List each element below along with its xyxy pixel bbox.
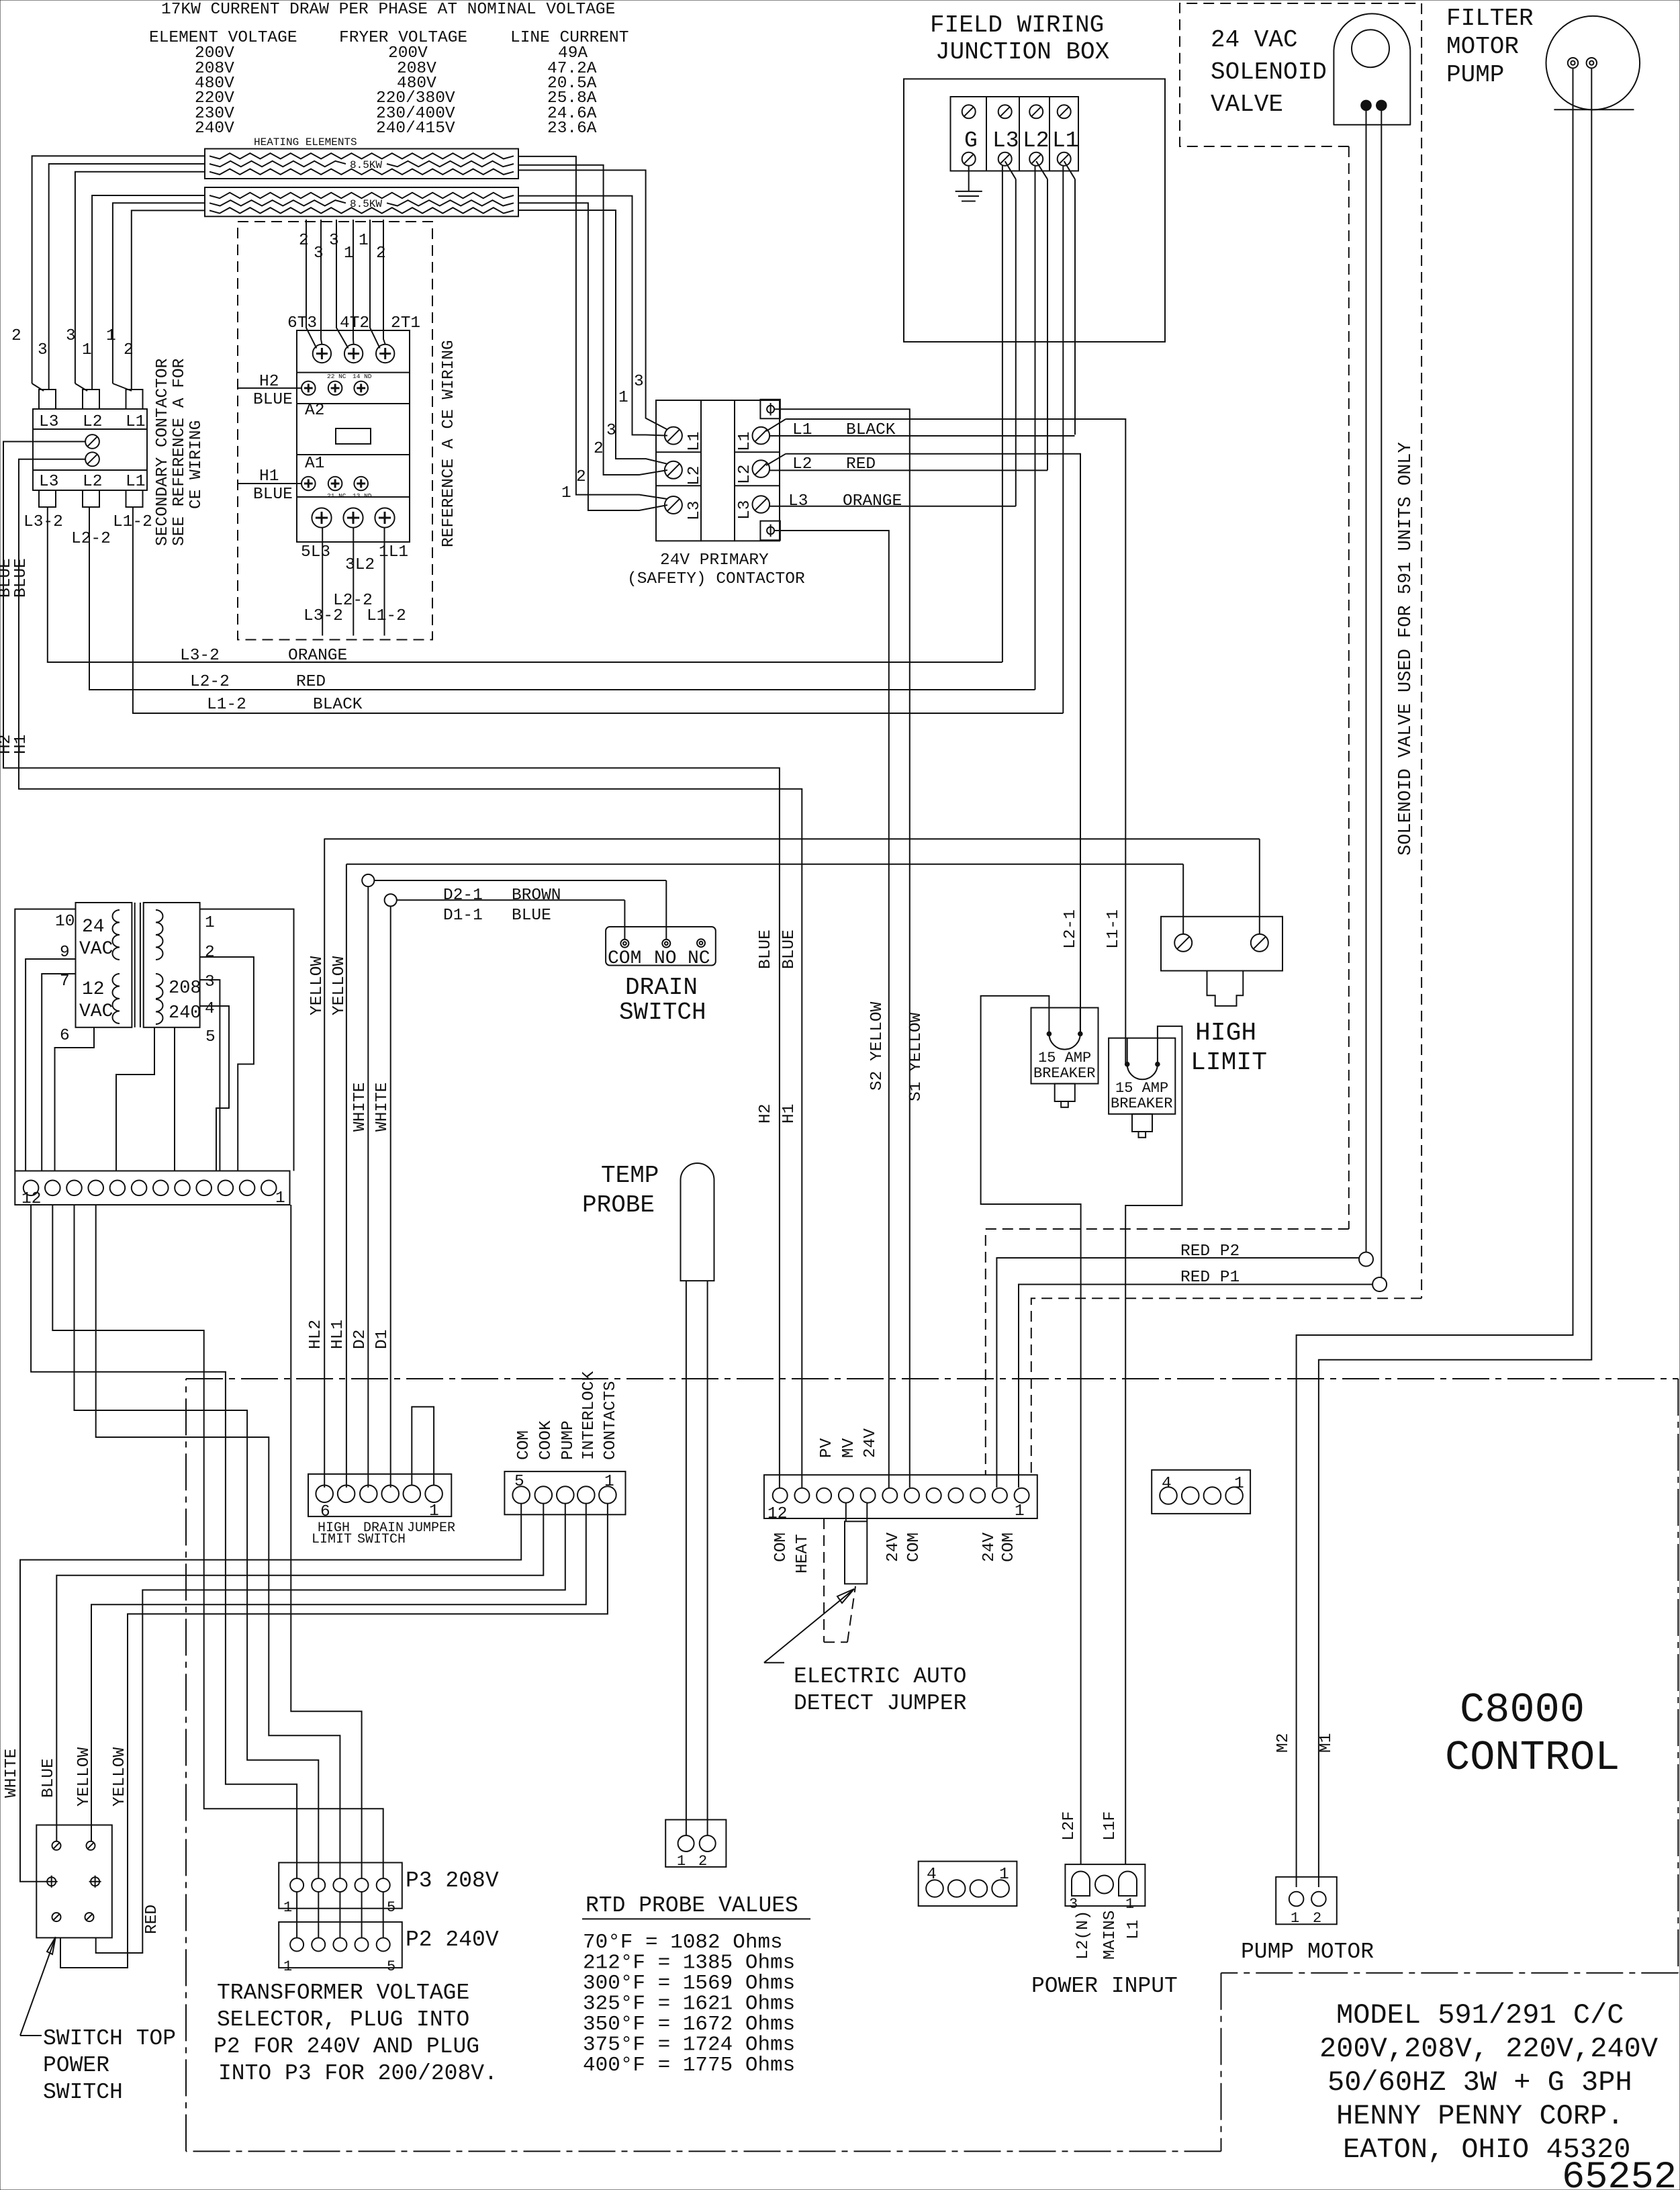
transformer secondary coil top xyxy=(156,910,163,923)
svg-text:1: 1 xyxy=(618,389,628,407)
svg-text:L2: L2 xyxy=(1023,128,1049,153)
svg-text:3: 3 xyxy=(205,973,215,991)
svg-text:BLUE: BLUE xyxy=(253,391,293,409)
arrow electric auto detect xyxy=(764,1589,854,1663)
5-pin connector box xyxy=(504,1471,625,1514)
breaker 2 loop wire to L1F xyxy=(1125,1026,1182,1864)
svg-text:400°F = 1775 Ohms: 400°F = 1775 Ohms xyxy=(583,2054,795,2077)
junction box top screws xyxy=(962,105,976,118)
temp probe capsule xyxy=(681,1163,714,1281)
arrow to switch xyxy=(20,1937,56,2036)
svg-text:YELLOW: YELLOW xyxy=(75,1747,93,1807)
transformer winding 12VAC coil xyxy=(113,974,120,987)
svg-text:240V: 240V xyxy=(195,120,234,138)
svg-text:VALVE: VALVE xyxy=(1211,91,1283,118)
wire D2 with junction circle and D2-1 BROWN xyxy=(367,886,369,1488)
svg-text:3: 3 xyxy=(329,232,339,250)
svg-text:2T1: 2T1 xyxy=(391,314,420,332)
svg-text:TRANSFORMER VOLTAGE: TRANSFORMER VOLTAGE xyxy=(217,1980,469,2005)
main contactor top screws 6T3 4T2 2T1 xyxy=(313,345,331,363)
svg-text:22 NC: 22 NC xyxy=(327,373,346,380)
svg-text:3: 3 xyxy=(38,341,48,359)
svg-text:COM: COM xyxy=(772,1533,790,1562)
breaker 1 terminals and arc xyxy=(1048,1008,1049,1034)
svg-text:3: 3 xyxy=(314,244,324,263)
svg-text:MODEL 591/291 C/C: MODEL 591/291 C/C xyxy=(1336,1999,1624,2032)
svg-text:L2: L2 xyxy=(686,466,704,486)
svg-text:SOLENOID: SOLENOID xyxy=(1211,58,1327,86)
4-pin connector near power input xyxy=(919,1862,1017,1907)
svg-text:D1: D1 xyxy=(373,1330,391,1349)
svg-text:YELLOW: YELLOW xyxy=(111,1747,129,1807)
main contactor U1 box xyxy=(297,330,410,542)
breaker 1 plug xyxy=(1055,1084,1075,1101)
svg-text:12: 12 xyxy=(767,1505,787,1523)
wire HL2 from connector pin6 to high limit xyxy=(324,839,325,1488)
svg-text:JUMPER: JUMPER xyxy=(407,1520,455,1536)
wire L3 feed straight xyxy=(1002,166,1003,662)
24 VAC solenoid valve dashed enclosure xyxy=(1180,3,1421,146)
svg-text:DETECT JUMPER: DETECT JUMPER xyxy=(794,1691,966,1716)
svg-text:COM: COM xyxy=(608,948,641,969)
svg-text:3: 3 xyxy=(1069,1896,1078,1913)
svg-text:ORANGE: ORANGE xyxy=(843,492,902,510)
15 amp breaker 1 box xyxy=(1031,1008,1099,1084)
svg-text:1: 1 xyxy=(999,1866,1009,1884)
svg-text:BREAKER: BREAKER xyxy=(1111,1095,1172,1112)
svg-text:H1: H1 xyxy=(12,735,30,754)
svg-text:1: 1 xyxy=(1291,1910,1299,1927)
dashed boundary around RED P wires inner xyxy=(1031,1298,1421,1475)
svg-text:2: 2 xyxy=(205,944,215,962)
temp probe 2-pin connector xyxy=(665,1820,726,1867)
wire interlock pin2 to switch YELLOW xyxy=(91,1504,586,1841)
svg-text:L1F: L1F xyxy=(1101,1811,1119,1841)
svg-text:200V,208V, 220V,240V: 200V,208V, 220V,240V xyxy=(1319,2033,1658,2065)
wire interlock pin5 to switch WHITE xyxy=(20,1504,521,1882)
wire selector feed 1 xyxy=(31,1205,297,1878)
svg-text:1: 1 xyxy=(344,244,354,263)
svg-text:G: G xyxy=(964,128,978,153)
drain switch wires up xyxy=(624,900,625,940)
svg-text:L1: L1 xyxy=(126,413,145,431)
svg-text:SWITCH: SWITCH xyxy=(43,2080,123,2105)
svg-text:TEMP: TEMP xyxy=(601,1162,659,1189)
svg-text:H1: H1 xyxy=(259,467,279,486)
svg-text:YELLOW: YELLOW xyxy=(308,956,326,1015)
svg-text:PV: PV xyxy=(818,1438,836,1458)
svg-text:JUNCTION BOX: JUNCTION BOX xyxy=(935,38,1109,66)
svg-text:L3-2: L3-2 xyxy=(24,513,63,531)
svg-text:3: 3 xyxy=(634,373,644,391)
wire HL1 from connector pin5 to high limit xyxy=(346,864,347,1488)
svg-text:P3 208V: P3 208V xyxy=(406,1868,499,1893)
svg-text:HIGH: HIGH xyxy=(1195,1019,1256,1048)
svg-text:21 NC: 21 NC xyxy=(327,492,346,500)
secondary contactor coil screws xyxy=(85,435,99,449)
svg-text:4: 4 xyxy=(205,1000,215,1018)
svg-text:HENNY PENNY CORP.: HENNY PENNY CORP. xyxy=(1336,2100,1624,2132)
wire interlock pin1 to switch YELLOW 2 xyxy=(60,1504,608,1968)
svg-text:L3: L3 xyxy=(39,413,58,431)
svg-text:6T3: 6T3 xyxy=(287,314,317,332)
breaker 2 terminals and arc xyxy=(1127,1038,1128,1064)
svg-text:6: 6 xyxy=(60,1027,70,1045)
wire selector feed 4 xyxy=(291,1205,361,1878)
svg-text:1: 1 xyxy=(1234,1475,1244,1493)
svg-text:ORANGE: ORANGE xyxy=(288,647,347,665)
wire element1 left phase leads xyxy=(32,156,205,383)
svg-text:1: 1 xyxy=(82,341,92,359)
svg-text:1: 1 xyxy=(561,484,571,502)
svg-text:2: 2 xyxy=(124,341,134,359)
svg-text:4T2: 4T2 xyxy=(340,314,369,332)
svg-text:HEATING ELEMENTS: HEATING ELEMENTS xyxy=(254,136,357,148)
wire element1 right leads to safety contactor xyxy=(518,156,667,499)
wire L2 feed straight xyxy=(1035,166,1036,690)
high limit box xyxy=(1161,917,1282,971)
svg-text:1: 1 xyxy=(1125,1896,1134,1913)
svg-text:SEE REFERENCE A FOR: SEE REFERENCE A FOR xyxy=(171,358,189,546)
electric auto detect jumper dashed path xyxy=(823,1518,825,1642)
svg-text:7: 7 xyxy=(60,972,70,991)
svg-text:LIMIT: LIMIT xyxy=(1191,1048,1267,1077)
svg-text:MAINS: MAINS xyxy=(1101,1910,1119,1960)
svg-text:RED P1: RED P1 xyxy=(1180,1269,1240,1287)
svg-text:SECONDARY CONTACTOR: SECONDARY CONTACTOR xyxy=(154,358,172,546)
wire element2 left phase leads xyxy=(92,195,205,390)
svg-text:14 ND: 14 ND xyxy=(353,373,372,380)
svg-text:1: 1 xyxy=(1015,1502,1025,1520)
svg-text:BLACK: BLACK xyxy=(846,421,896,439)
svg-text:5: 5 xyxy=(387,1899,395,1916)
svg-text:BLUE: BLUE xyxy=(253,486,293,504)
wire filter pump to pump motor M2 xyxy=(1297,68,1573,1887)
svg-text:4: 4 xyxy=(1162,1475,1172,1493)
main contactor aux screws top row xyxy=(301,381,316,396)
svg-text:L3-2: L3-2 xyxy=(180,647,220,665)
svg-text:MV: MV xyxy=(840,1438,858,1458)
wire L3 ORANGE row xyxy=(769,506,1016,507)
svg-text:LIMIT: LIMIT xyxy=(312,1532,352,1547)
breaker 2 plug xyxy=(1132,1114,1152,1132)
svg-text:1: 1 xyxy=(283,1899,292,1916)
svg-text:S2 YELLOW: S2 YELLOW xyxy=(868,1001,886,1091)
svg-text:17KW CURRENT DRAW PER PHASE AT: 17KW CURRENT DRAW PER PHASE AT NOMINAL V… xyxy=(161,1,615,19)
svg-text:15 AMP: 15 AMP xyxy=(1038,1050,1091,1066)
svg-text:12: 12 xyxy=(82,979,105,1000)
svg-text:H2: H2 xyxy=(757,1104,775,1124)
wire selector feed 2 xyxy=(75,1205,319,1878)
svg-text:BLUE: BLUE xyxy=(40,1758,58,1798)
svg-text:POWER: POWER xyxy=(43,2053,109,2078)
dash-dot boundary C8000 control area xyxy=(186,1378,1678,1379)
svg-text:3: 3 xyxy=(66,327,76,345)
24V primary safety contactor center xyxy=(701,400,735,541)
wire H1 BLUE from secondary contactor to control HEAT xyxy=(19,459,802,1488)
svg-text:13 ND: 13 ND xyxy=(353,492,372,500)
svg-text:L1-1: L1-1 xyxy=(1105,909,1123,949)
ground wire and symbol xyxy=(968,166,970,191)
svg-text:M2: M2 xyxy=(1274,1733,1293,1753)
svg-text:3L2: 3L2 xyxy=(345,556,375,574)
svg-text:H1: H1 xyxy=(780,1104,798,1124)
svg-text:L3: L3 xyxy=(992,128,1019,153)
svg-text:L1: L1 xyxy=(792,421,812,439)
svg-text:RED: RED xyxy=(143,1905,161,1934)
svg-text:3: 3 xyxy=(606,422,616,440)
4-pin connector right middle xyxy=(1152,1470,1250,1514)
svg-text:S1 YELLOW: S1 YELLOW xyxy=(907,1012,925,1101)
svg-text:2: 2 xyxy=(299,232,309,250)
svg-text:WHITE: WHITE xyxy=(351,1082,369,1132)
svg-text:24V: 24V xyxy=(861,1428,880,1458)
24V primary safety contactor right column xyxy=(735,400,780,541)
wire L3 feed diagonal xyxy=(1005,161,1016,179)
wire stub H2 BLUE main contactor xyxy=(238,387,301,389)
svg-text:PROBE: PROBE xyxy=(582,1191,655,1219)
power input terminals xyxy=(1072,1872,1090,1897)
svg-text:8.5KW: 8.5KW xyxy=(350,198,382,210)
svg-text:BLUE: BLUE xyxy=(757,929,775,969)
svg-text:6: 6 xyxy=(320,1503,330,1521)
svg-text:L1: L1 xyxy=(126,473,145,491)
svg-text:YELLOW: YELLOW xyxy=(330,956,348,1015)
transformer secondary coil 208 xyxy=(156,974,163,987)
svg-text:L2-1: L2-1 xyxy=(1062,909,1080,949)
wire L1 BLACK row xyxy=(766,419,786,431)
svg-text:CE WIRING: CE WIRING xyxy=(187,420,205,509)
svg-text:2: 2 xyxy=(594,440,604,458)
svg-text:SELECTOR, PLUG INTO: SELECTOR, PLUG INTO xyxy=(217,2007,469,2032)
filter motor pump circle xyxy=(1546,16,1640,110)
svg-text:L1-2: L1-2 xyxy=(367,607,406,625)
svg-text:L3: L3 xyxy=(736,500,754,520)
terminal strip 12 position xyxy=(15,1171,289,1205)
svg-text:REFERENCE A CE WIRING: REFERENCE A CE WIRING xyxy=(440,340,458,547)
svg-text:RED: RED xyxy=(296,673,326,691)
svg-text:INTO P3 FOR 200/208V.: INTO P3 FOR 200/208V. xyxy=(218,2061,498,2086)
jumper wire pins 2-1 xyxy=(412,1407,434,1486)
svg-text:BLUE: BLUE xyxy=(512,907,551,925)
wire interlock pin4 to switch BLUE xyxy=(56,1504,543,1841)
svg-text:D1-1: D1-1 xyxy=(443,907,483,925)
transformer winding 24VAC coil xyxy=(113,910,120,923)
svg-text:POWER INPUT: POWER INPUT xyxy=(1031,1974,1178,1999)
svg-text:BREAKER: BREAKER xyxy=(1033,1065,1095,1082)
svg-text:SWITCH TOP: SWITCH TOP xyxy=(43,2026,176,2051)
high limit plug xyxy=(1207,971,1244,1006)
svg-text:WHITE: WHITE xyxy=(3,1748,21,1798)
svg-text:L1: L1 xyxy=(1125,1920,1143,1940)
svg-text:CONTROL: CONTROL xyxy=(1445,1734,1620,1782)
filter pump terminals xyxy=(1568,58,1578,68)
svg-text:C8000: C8000 xyxy=(1460,1686,1585,1734)
secondary contactor terminal tabs bottom xyxy=(39,490,56,507)
transformer left winding box xyxy=(76,903,132,1028)
svg-text:208: 208 xyxy=(169,978,201,999)
wire L3-2 ORANGE xyxy=(48,507,1002,662)
svg-text:24V: 24V xyxy=(980,1533,998,1562)
svg-text:COM: COM xyxy=(515,1430,533,1460)
svg-text:WHITE: WHITE xyxy=(373,1082,391,1132)
svg-text:5: 5 xyxy=(387,1958,395,1975)
wire element2 right leads to safety contactor xyxy=(518,196,667,436)
safety contactor right screws xyxy=(753,427,770,445)
svg-text:COOK: COOK xyxy=(537,1420,555,1460)
svg-text:HL1: HL1 xyxy=(329,1320,347,1349)
svg-text:L2F: L2F xyxy=(1060,1811,1078,1841)
svg-text:L1: L1 xyxy=(1052,128,1079,153)
svg-text:HEAT: HEAT xyxy=(794,1534,812,1573)
safety contactor left screws xyxy=(665,427,682,445)
secondary contactor terminal tabs top xyxy=(39,390,56,409)
wire filter pump to pump motor M1 xyxy=(1319,68,1591,1887)
svg-text:L2: L2 xyxy=(83,473,102,491)
wire L2 RED row xyxy=(766,454,786,465)
wire selector feed 5 xyxy=(52,1205,383,1878)
svg-text:RTD PROBE VALUES: RTD PROBE VALUES xyxy=(586,1893,798,1918)
svg-text:15 AMP: 15 AMP xyxy=(1115,1080,1168,1097)
svg-text:VAC: VAC xyxy=(79,1001,113,1022)
svg-text:(SAFETY) CONTACTOR: (SAFETY) CONTACTOR xyxy=(627,570,805,588)
svg-text:A2: A2 xyxy=(305,402,324,420)
svg-text:A1: A1 xyxy=(305,455,324,473)
svg-text:240/415V: 240/415V xyxy=(376,120,455,138)
svg-text:BLUE: BLUE xyxy=(12,558,30,598)
svg-text:24V PRIMARY: 24V PRIMARY xyxy=(660,551,769,569)
svg-text:24V: 24V xyxy=(884,1533,902,1562)
12-pin connector circles xyxy=(773,1488,788,1503)
svg-text:10: 10 xyxy=(55,913,75,931)
temp probe wires xyxy=(686,1281,687,1835)
breaker 1 loop wire to L2F xyxy=(981,996,1081,1864)
svg-text:PUMP: PUMP xyxy=(559,1420,577,1460)
wire S2 YELLOW from bottom small screw xyxy=(774,531,889,1488)
svg-text:INTERLOCK: INTERLOCK xyxy=(580,1371,598,1460)
svg-text:MOTOR: MOTOR xyxy=(1446,33,1519,60)
svg-text:1: 1 xyxy=(604,1473,614,1491)
svg-text:RED: RED xyxy=(846,455,876,473)
svg-text:L3: L3 xyxy=(686,501,704,520)
svg-text:L2-2: L2-2 xyxy=(190,673,230,691)
svg-text:L2: L2 xyxy=(736,465,754,484)
solenoid valve body xyxy=(1334,13,1410,124)
dashed boundary around RED P wires outer xyxy=(986,1229,1349,1475)
svg-text:D2: D2 xyxy=(351,1330,369,1349)
solenoid valve wires down to RED P2 P1 xyxy=(1366,110,1367,1252)
svg-text:2: 2 xyxy=(576,468,586,486)
electric auto detect jumper rect xyxy=(845,1521,867,1584)
field wiring junction box outline xyxy=(904,79,1165,343)
svg-text:BLUE: BLUE xyxy=(780,929,798,969)
svg-text:5L3: 5L3 xyxy=(301,543,330,561)
junction box terminal block xyxy=(951,97,1079,171)
wire S1 YELLOW from top small screw xyxy=(774,409,910,1488)
transformer pin wires to terminal strip xyxy=(15,909,75,1171)
15 amp breaker 2 box xyxy=(1109,1038,1175,1114)
svg-text:L2(N): L2(N) xyxy=(1074,1910,1092,1960)
svg-text:NC: NC xyxy=(688,948,710,969)
svg-text:L3: L3 xyxy=(788,492,808,510)
svg-text:24: 24 xyxy=(82,917,105,938)
svg-text:50/60HZ 3W + G 3PH: 50/60HZ 3W + G 3PH xyxy=(1327,2066,1632,2099)
24V primary safety contactor left column xyxy=(656,400,701,541)
svg-text:2: 2 xyxy=(1313,1910,1321,1927)
wires into main contactor top terminals xyxy=(306,220,316,349)
wire selector feed 3 xyxy=(96,1205,340,1878)
power switch screws xyxy=(52,1841,61,1850)
wire L1 feed diagonal xyxy=(1064,161,1075,179)
high limit screws xyxy=(1174,934,1192,952)
svg-text:2: 2 xyxy=(376,244,386,263)
svg-text:L1-2: L1-2 xyxy=(207,696,246,714)
svg-text:ELECTRIC AUTO: ELECTRIC AUTO xyxy=(794,1664,966,1689)
heating element 2 (8.5KW) xyxy=(205,187,518,216)
svg-text:P2 FOR 240V AND PLUG: P2 FOR 240V AND PLUG xyxy=(214,2034,479,2059)
P3 208V connector xyxy=(279,1863,402,1909)
6-pin connector box xyxy=(308,1474,451,1516)
transformer core lines xyxy=(134,903,136,1028)
power input box xyxy=(1065,1864,1145,1906)
svg-text:1: 1 xyxy=(283,1958,292,1975)
svg-text:P2 240V: P2 240V xyxy=(406,1927,499,1952)
wire H2 BLUE from secondary contactor to control COM xyxy=(3,442,780,1488)
solenoid valve terminals xyxy=(1361,101,1371,111)
svg-text:COM: COM xyxy=(1000,1533,1018,1562)
svg-text:RED P2: RED P2 xyxy=(1180,1242,1240,1261)
svg-text:8.5KW: 8.5KW xyxy=(350,159,382,171)
svg-text:240: 240 xyxy=(169,1003,201,1023)
svg-text:SWITCH: SWITCH xyxy=(619,999,706,1026)
wire RED P2 xyxy=(996,1258,1359,1488)
svg-text:5: 5 xyxy=(205,1028,216,1046)
svg-text:1: 1 xyxy=(205,914,215,932)
wire RED P1 xyxy=(1019,1285,1372,1488)
main contactor bottom screws 5L3 3L2 1L1 xyxy=(312,508,331,527)
svg-text:DRAIN: DRAIN xyxy=(625,974,698,1001)
drain switch terminals COM NO NC xyxy=(620,940,628,948)
dashed box REFERENCE A CE WIRING xyxy=(238,222,432,640)
svg-text:BROWN: BROWN xyxy=(512,886,561,905)
heating element 1 (8.5KW) xyxy=(205,149,518,179)
svg-text:1L1: 1L1 xyxy=(379,543,408,561)
5-pin connector circles xyxy=(512,1486,530,1504)
safety contactor small screw boxes xyxy=(760,400,780,419)
svg-text:NO: NO xyxy=(654,948,677,969)
drain switch box xyxy=(606,927,716,966)
wire L2 feed diagonal xyxy=(1036,161,1047,179)
svg-text:D2-1: D2-1 xyxy=(443,886,483,905)
svg-text:2: 2 xyxy=(11,327,21,345)
svg-text:M1: M1 xyxy=(1317,1733,1336,1753)
wire stub H1 BLUE main contactor xyxy=(238,483,301,484)
svg-text:HL2: HL2 xyxy=(307,1320,325,1349)
svg-text:CONTACTS: CONTACTS xyxy=(602,1381,620,1460)
high limit wires up xyxy=(1182,864,1184,934)
svg-text:5: 5 xyxy=(514,1473,524,1491)
svg-text:H2: H2 xyxy=(259,373,279,391)
main contactor aux screws bottom row xyxy=(301,477,316,491)
wire L1-2 BLACK xyxy=(133,507,1063,713)
svg-text:VAC: VAC xyxy=(79,939,113,960)
svg-text:1: 1 xyxy=(429,1502,439,1520)
svg-text:23.6A: 23.6A xyxy=(547,120,597,138)
svg-text:L3-2: L3-2 xyxy=(304,607,343,625)
svg-text:2: 2 xyxy=(698,1853,707,1870)
svg-text:1: 1 xyxy=(275,1189,285,1207)
svg-text:L1: L1 xyxy=(686,432,704,451)
